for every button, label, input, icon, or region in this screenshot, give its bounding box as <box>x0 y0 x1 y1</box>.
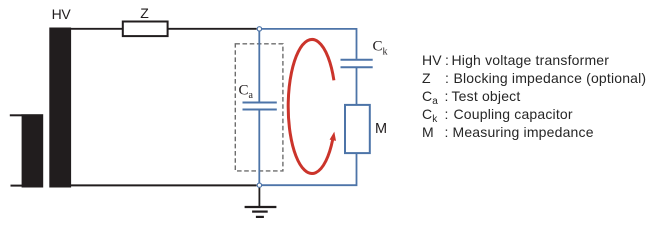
ground <box>245 207 277 217</box>
svg-text:HV: HV <box>52 6 72 22</box>
svg-text:Test object: Test object <box>452 88 521 104</box>
wire LV primary bottom lead <box>11 185 23 187</box>
svg-text:M: M <box>422 124 434 140</box>
resistor Z <box>123 22 168 37</box>
capacitor Ck top plate <box>341 59 373 61</box>
node B (bottom junction) <box>257 183 261 187</box>
wire Ck to measuring impedance M <box>356 67 358 105</box>
wire HV bar to resistor Z <box>71 28 122 30</box>
svg-text::: : <box>445 70 449 86</box>
svg-text:Ca: Ca <box>422 88 438 107</box>
svg-text:Ck: Ck <box>373 39 388 58</box>
svg-text::: : <box>445 106 449 122</box>
svg-text:Blocking impedance (optional): Blocking impedance (optional) <box>454 70 647 86</box>
wire Ca branch lower <box>258 110 260 182</box>
transformer T1 primary (LV winding bar) <box>22 114 44 187</box>
wire M to blue bottom bus (to node B) <box>262 153 357 185</box>
legend <box>422 52 646 140</box>
capacitor Ca top plate <box>243 102 277 104</box>
svg-text:High voltage transformer: High voltage transformer <box>452 52 610 68</box>
svg-text:Measuring impedance: Measuring impedance <box>453 124 594 140</box>
svg-text:Z: Z <box>140 5 149 21</box>
svg-text::: : <box>445 124 449 140</box>
svg-text:Z: Z <box>422 70 431 86</box>
wire resistor Z to node A <box>169 28 257 30</box>
svg-text::: : <box>445 88 449 104</box>
capacitor Ck bottom plate <box>341 66 373 68</box>
svg-text:M: M <box>375 121 387 137</box>
measuring impedance M (box) <box>345 105 370 153</box>
node A (top junction) <box>257 27 261 31</box>
capacitor Ca bottom plate <box>243 109 277 111</box>
transformer T1 secondary (HV winding bar) <box>49 28 71 188</box>
wire bottom bus (black, HV bar to node B) <box>71 184 257 186</box>
svg-text:HV: HV <box>422 52 442 68</box>
wire ground stem <box>258 188 260 207</box>
svg-text:Ca: Ca <box>239 83 254 102</box>
wire Ca branch upper <box>258 32 260 102</box>
svg-text::: : <box>445 52 449 68</box>
svg-text:Coupling capacitor: Coupling capacitor <box>454 106 573 122</box>
wire blue top bus (node A to Ck branch) <box>262 29 357 59</box>
svg-text:Ck: Ck <box>422 106 438 125</box>
circulating PD current loop arrow (red) <box>288 39 336 173</box>
wire LV primary top lead <box>10 114 22 116</box>
dashed enclosure around test object Ca <box>235 44 283 171</box>
